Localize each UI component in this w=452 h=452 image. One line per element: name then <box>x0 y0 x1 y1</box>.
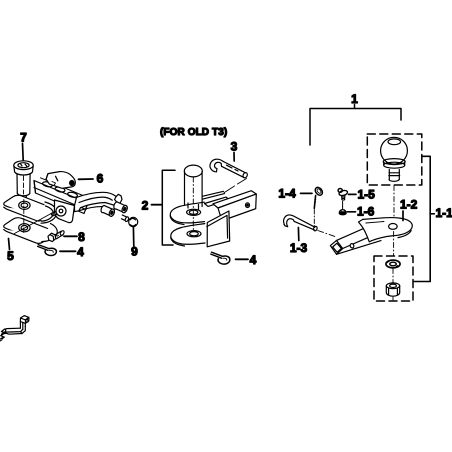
svg-text:7: 7 <box>20 131 27 145</box>
svg-text:1-3: 1-3 <box>290 241 308 255</box>
svg-text:(FOR OLD T3): (FOR OLD T3) <box>160 127 227 138</box>
svg-text:9: 9 <box>131 245 138 259</box>
svg-text:1-2: 1-2 <box>400 198 418 212</box>
svg-text:6: 6 <box>97 172 104 186</box>
svg-text:1-4: 1-4 <box>278 187 296 201</box>
svg-text:3: 3 <box>231 140 238 154</box>
svg-text:1-1: 1-1 <box>436 206 452 220</box>
svg-text:1-5: 1-5 <box>358 187 376 201</box>
svg-text:2: 2 <box>142 198 149 212</box>
svg-text:4: 4 <box>77 245 84 259</box>
svg-text:1-6: 1-6 <box>357 205 375 219</box>
svg-text:5: 5 <box>7 249 14 263</box>
svg-text:8: 8 <box>78 230 85 244</box>
svg-text:4: 4 <box>250 253 257 267</box>
